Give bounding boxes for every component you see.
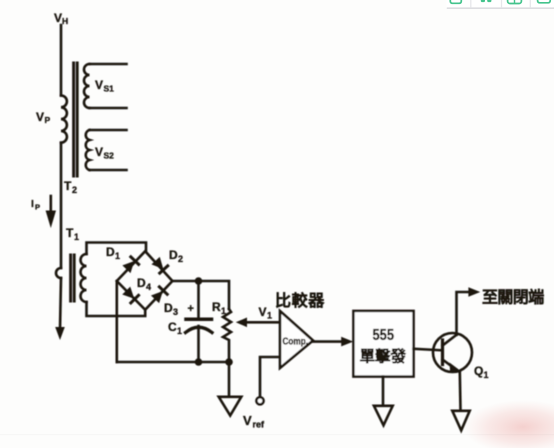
wire emitter to ground bbox=[458, 372, 461, 410]
svg-text:比較器: 比較器 bbox=[275, 291, 325, 310]
svg-text:H: H bbox=[62, 16, 68, 26]
label 555 bbox=[373, 327, 395, 344]
svg-text:D: D bbox=[106, 245, 115, 259]
label VS1 bbox=[95, 78, 114, 94]
label to-shutdown-terminal chinese bbox=[482, 288, 544, 307]
toolbar icon 1 bbox=[450, 0, 461, 3]
label VS2 bbox=[95, 145, 114, 161]
label Comp. bbox=[283, 336, 309, 348]
svg-text:1: 1 bbox=[115, 251, 120, 261]
transformer T2 primary winding Vp bbox=[61, 96, 67, 143]
transformer T2 secondary VS1 winding bbox=[84, 64, 90, 108]
wire primary continues to arrow bbox=[60, 278, 61, 330]
resistor R1 potentiometer bbox=[223, 309, 231, 362]
wire comparator lower input to Vref terminal bbox=[260, 357, 280, 397]
svg-text:S2: S2 bbox=[104, 151, 115, 161]
ground symbol under Q1 bbox=[452, 411, 469, 431]
svg-text:P: P bbox=[35, 203, 40, 212]
svg-text:R: R bbox=[212, 300, 221, 314]
wire 555 output to Q1 base bbox=[414, 349, 442, 351]
current arrow Ip bbox=[49, 196, 52, 212]
toolbar icon 4 bbox=[538, 0, 551, 3]
ground symbol under R1 bbox=[219, 397, 242, 416]
label one-shot chinese bbox=[360, 347, 407, 366]
op-amp comparator U1 bbox=[280, 311, 313, 368]
label V1 bbox=[259, 305, 273, 321]
wire VS1 top lead bbox=[90, 63, 127, 66]
bridge rectifier diamond bbox=[117, 251, 173, 310]
svg-text:V: V bbox=[243, 413, 252, 428]
wire bridge negative to bottom rail bbox=[116, 281, 119, 362]
label C1 bbox=[168, 320, 182, 336]
label Q1 bbox=[474, 364, 489, 380]
svg-text:D: D bbox=[164, 301, 173, 315]
label Vref bbox=[243, 413, 265, 430]
pink scan smudge bottom-right bbox=[463, 400, 554, 448]
wire collector up and arrow to shutdown bbox=[457, 292, 471, 335]
transformer T2 secondary VS2 winding bbox=[86, 130, 90, 170]
transformer T1 secondary winding bbox=[81, 254, 87, 302]
transformer T1 core bbox=[71, 255, 75, 301]
svg-text:至關閉端: 至關閉端 bbox=[482, 288, 544, 307]
node junction dot C1 top bbox=[195, 277, 203, 285]
svg-text:單擊發: 單擊發 bbox=[360, 347, 407, 366]
label Vp bbox=[36, 110, 51, 125]
diode D2 bbox=[151, 257, 167, 273]
terminal Vref circle bbox=[256, 397, 263, 404]
capacitor C1 bbox=[186, 281, 213, 362]
transformer T1 primary single loop bbox=[56, 268, 61, 278]
wire primary line continues below T2 bbox=[60, 143, 63, 268]
svg-text:ref: ref bbox=[253, 420, 266, 430]
node junction dot C1 bottom bbox=[195, 358, 203, 366]
wire VS2 top lead bbox=[90, 129, 127, 132]
label D4 bbox=[137, 276, 151, 292]
svg-text:+: + bbox=[188, 303, 194, 315]
wire T1 secondary bottom lead to bridge bbox=[87, 302, 146, 316]
svg-text:V: V bbox=[36, 110, 44, 124]
label R1 bbox=[212, 300, 226, 316]
transformer T2 core bbox=[74, 63, 78, 176]
label Ip bbox=[31, 199, 40, 212]
svg-text:V: V bbox=[259, 305, 267, 319]
svg-text:T: T bbox=[64, 179, 72, 193]
wire 555 ground stub bbox=[382, 377, 385, 405]
svg-text:1: 1 bbox=[221, 306, 226, 316]
arrowhead current direction bottom of primary bbox=[55, 327, 65, 340]
svg-text:V: V bbox=[95, 78, 103, 92]
label plus sign bbox=[188, 303, 194, 315]
svg-text:1: 1 bbox=[484, 370, 489, 380]
wire primary line from VH down to T2 bbox=[60, 25, 63, 96]
svg-text:1: 1 bbox=[177, 326, 182, 336]
diode D1 bbox=[122, 257, 138, 273]
node junction dot R1 bottom bbox=[225, 358, 233, 366]
wire comparator output with arrowhead into 555 bbox=[313, 340, 344, 343]
svg-text:S1: S1 bbox=[104, 84, 115, 94]
svg-text:I: I bbox=[31, 199, 34, 210]
svg-text:Comp.: Comp. bbox=[283, 336, 309, 348]
label D1 bbox=[106, 245, 120, 261]
label comparator title bbox=[275, 291, 325, 310]
wire bridge positive to R1 top bbox=[172, 281, 229, 309]
wiper arrow into R1 wire to comparator input V1 bbox=[243, 321, 280, 324]
wire R1 node to ground bbox=[228, 362, 231, 396]
wire VS1 bottom lead bbox=[90, 107, 127, 110]
svg-text:D: D bbox=[137, 276, 146, 290]
svg-text:T: T bbox=[66, 226, 74, 240]
svg-text:2: 2 bbox=[178, 254, 183, 264]
IC 555 one-shot box bbox=[353, 311, 413, 377]
label T2 bbox=[64, 179, 77, 195]
wire VS2 bottom lead bbox=[90, 169, 127, 172]
toolbar top right bbox=[447, 0, 554, 8]
svg-text:4: 4 bbox=[146, 282, 151, 292]
toolbar icon 3 bbox=[508, 0, 522, 4]
svg-text:1: 1 bbox=[74, 232, 79, 242]
svg-text:D: D bbox=[169, 248, 178, 262]
toolbar icon 2 bbox=[481, 0, 485, 2]
label D2 bbox=[169, 248, 183, 264]
svg-text:P: P bbox=[45, 115, 51, 125]
ground symbol under 555 bbox=[374, 406, 393, 426]
diode D3 bbox=[151, 287, 167, 303]
svg-text:2: 2 bbox=[72, 185, 77, 195]
svg-text:555: 555 bbox=[373, 327, 395, 344]
svg-text:C: C bbox=[168, 320, 177, 334]
faint scan streak bbox=[0, 434, 554, 435]
transistor Q1 bbox=[433, 333, 472, 372]
node VH label bbox=[54, 11, 68, 26]
svg-text:V: V bbox=[95, 145, 103, 159]
svg-text:Q: Q bbox=[474, 364, 483, 378]
label D3 bbox=[164, 301, 178, 317]
diode D4 bbox=[122, 287, 138, 303]
wire bottom rail bbox=[117, 361, 229, 364]
svg-text:3: 3 bbox=[173, 307, 178, 317]
label T1 bbox=[66, 226, 79, 242]
svg-text:1: 1 bbox=[267, 311, 272, 321]
svg-text:V: V bbox=[54, 11, 62, 25]
wire T1 secondary top lead to bridge bbox=[87, 243, 147, 255]
